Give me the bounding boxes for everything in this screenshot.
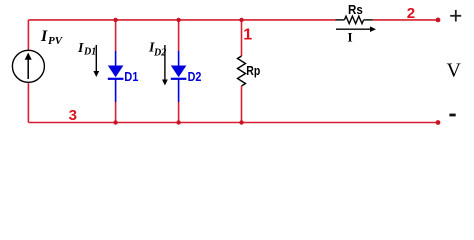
- arrow I_D1: [93, 45, 99, 77]
- wire D1 branch upper (red): [115, 20, 117, 51]
- wire left rail lower (red): [27, 83, 29, 123]
- plus terminal symbol: [450, 10, 461, 22]
- svg-text:D1: D1: [124, 69, 138, 84]
- wire D1 branch lower (red): [115, 102, 117, 123]
- resistor Rs leads (black): [336, 19, 345, 21]
- svg-text:Rp: Rp: [246, 63, 260, 78]
- svg-text:Rs: Rs: [348, 2, 363, 17]
- resistor Rs: [344, 16, 363, 23]
- wire top rail left (red): [28, 19, 335, 21]
- wire D2 anode lead (blue): [178, 51, 180, 66]
- wire D2 branch lower (red): [178, 102, 180, 123]
- svg-text:D1: D1: [83, 47, 96, 58]
- diode D2: [171, 66, 187, 79]
- junction dot bottom D2: [176, 120, 180, 124]
- junction dot top D1: [113, 18, 117, 22]
- label I_D2: [148, 41, 166, 59]
- wire bottom rail (red): [28, 122, 438, 124]
- junction dot top D2: [176, 18, 180, 22]
- label I_PV: [40, 28, 64, 47]
- svg-text:2: 2: [407, 5, 415, 22]
- junction dot top Rp (node 1): [239, 18, 243, 22]
- wire D2 branch upper (red): [178, 20, 180, 51]
- wire top rail right (red): [373, 19, 438, 21]
- svg-text:PV: PV: [48, 35, 64, 47]
- svg-text:1: 1: [243, 26, 252, 43]
- svg-text:3: 3: [69, 107, 77, 124]
- junction dot bottom Rp: [239, 120, 243, 124]
- wire Rp branch upper (red): [241, 20, 243, 56]
- svg-text:I: I: [77, 41, 84, 56]
- arrow I_D2: [162, 45, 168, 86]
- terminal dot node 2: [436, 18, 441, 23]
- wire D1 anode lead (blue): [115, 51, 117, 66]
- svg-text:I: I: [348, 30, 353, 45]
- wire D2 cathode lead (blue): [178, 79, 180, 102]
- wire left rail upper (red): [27, 20, 29, 51]
- svg-text:D2: D2: [188, 69, 202, 84]
- arrow I (through Rs): [336, 26, 376, 32]
- svg-text:V: V: [447, 60, 462, 82]
- terminal dot bottom right: [436, 120, 441, 125]
- label I_D1: [77, 41, 96, 58]
- svg-text:I: I: [40, 28, 48, 45]
- current source I_PV circle: [12, 50, 44, 82]
- wire D1 cathode lead (blue): [115, 79, 117, 102]
- minus terminal symbol: [449, 114, 455, 117]
- current source arrow: [25, 53, 32, 80]
- junction dot bottom D1: [113, 120, 117, 124]
- wire Rp branch lower (red): [241, 86, 243, 123]
- diode D1: [108, 66, 124, 79]
- resistor Rp: [238, 56, 246, 86]
